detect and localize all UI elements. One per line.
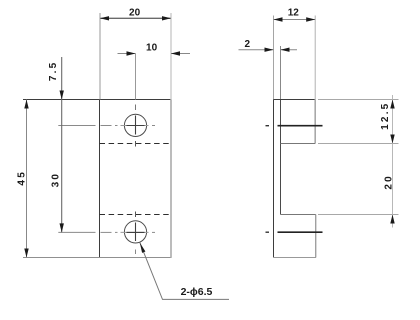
svg-text:45: 45 bbox=[17, 170, 28, 186]
svg-text:12.5: 12.5 bbox=[380, 102, 391, 130]
svg-text:20: 20 bbox=[129, 7, 141, 18]
svg-text:2-ϕ6.5: 2-ϕ6.5 bbox=[181, 286, 213, 298]
svg-text:20: 20 bbox=[383, 174, 394, 190]
svg-text:2: 2 bbox=[245, 39, 251, 50]
svg-text:30: 30 bbox=[50, 172, 61, 188]
svg-text:7.5: 7.5 bbox=[48, 61, 59, 82]
svg-text:12: 12 bbox=[288, 8, 300, 19]
svg-text:10: 10 bbox=[146, 43, 158, 54]
